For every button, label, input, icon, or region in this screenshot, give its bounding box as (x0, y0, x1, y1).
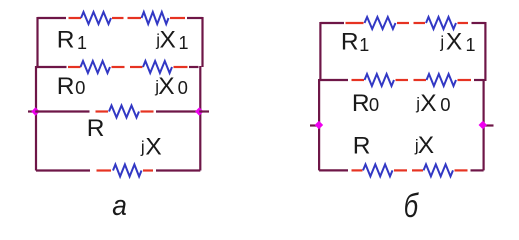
resistor jX0 leads (red dashes) (130, 66, 143, 68)
svg-text:0: 0 (440, 94, 450, 115)
svg-text:X: X (158, 73, 174, 100)
svg-text:R: R (341, 29, 359, 56)
svg-text:X: X (446, 29, 462, 56)
wire: figure a branch3 left stub with terminal (28, 110, 35, 112)
wire: figure a right vertical branch2-branch4 (199, 66, 201, 171)
resistor jX (bottom) (113, 165, 142, 177)
svg-text:R: R (57, 73, 75, 100)
wire: figure b right vertical branch1-branch2 (484, 22, 486, 81)
resistor jX1 (142, 12, 169, 24)
wire: figure a branch2 horizontal right segment (189, 66, 199, 68)
resistor R leads (red dashes) (96, 110, 109, 112)
resistor jX leads (red dashes) (97, 169, 112, 171)
resistor jX (figure b bottom) (424, 164, 454, 176)
wire: figure b left vertical branch2-bottom (318, 79, 320, 170)
svg-text:б: б (404, 188, 419, 225)
svg-text:R: R (353, 133, 371, 160)
svg-text:R: R (352, 90, 370, 117)
resistor R1 (81, 12, 111, 24)
wire: figure b top branch right segment (472, 22, 486, 24)
resistor R1 leads (red dashes, figure b) (346, 22, 364, 24)
svg-text:j: j (140, 138, 145, 157)
wire: figure b top branch left segment (320, 22, 344, 24)
wire: figure b right terminal stub (483, 124, 494, 126)
svg-text:1: 1 (466, 35, 476, 55)
wire: figure a branch2 horizontal left segment (36, 66, 67, 68)
resistor jX1 leads (red dashes, figure b) (414, 22, 426, 24)
svg-text:R: R (57, 27, 75, 54)
resistor R (109, 106, 139, 118)
resistor R leads (red dashes, figure b bottom) (352, 169, 363, 171)
wire: figure a branch3 right stub (199, 110, 209, 112)
wire: figure a top branch right segment (187, 17, 203, 19)
node: figure a branch3 left junction (31, 107, 39, 115)
node: figure b right terminal junction (479, 121, 487, 129)
wire: figure a left vertical branch1-branch2 (36, 17, 38, 67)
svg-text:a: a (112, 189, 127, 221)
svg-text:1: 1 (179, 33, 189, 53)
svg-text:R: R (87, 115, 105, 142)
resistor R0 (81, 61, 111, 73)
resistor R0 (figure b) (365, 74, 395, 86)
resistor jX0 (143, 61, 172, 73)
svg-text:0: 0 (369, 94, 379, 115)
wire: figure b bottom branch right segment (471, 169, 484, 171)
svg-text:X: X (420, 90, 436, 117)
wire: figure b left vertical branch1-branch2 (319, 22, 321, 80)
resistor R (figure b bottom) (363, 164, 393, 176)
wire: figure a right vertical branch1-branch2 (201, 17, 203, 67)
svg-text:j: j (439, 33, 444, 52)
node: figure a branch3 right junction (195, 107, 203, 115)
wire: figure a branch3 maroon left segment (35, 110, 89, 112)
wire: figure a branch4 (bottom) left segment (36, 169, 90, 171)
svg-text:X: X (145, 134, 161, 161)
svg-text:1: 1 (77, 33, 87, 53)
svg-text:X: X (160, 27, 176, 54)
wire: figure a branch3 maroon right segment (156, 110, 199, 112)
wire: figure b left terminal stub (310, 124, 319, 126)
svg-text:X: X (418, 132, 434, 159)
wire: figure a branch4 (bottom) right segment (156, 169, 200, 171)
svg-text:0: 0 (178, 77, 188, 98)
wire: figure b middle branch left segment (319, 79, 348, 81)
resistor jX1 (figure b) (426, 17, 456, 29)
node: figure b left terminal junction (315, 121, 323, 129)
wire: figure b right vertical branch2-bottom (483, 79, 485, 170)
resistor R0 leads (red dashes, figure b) (352, 79, 365, 81)
wire: figure a top branch left segment (38, 17, 67, 19)
wire: figure a left vertical branch2-branch4 (35, 66, 37, 171)
resistor jX0 leads (red dashes, figure b) (414, 79, 427, 81)
resistor jX1 leads (red dashes) (128, 17, 142, 19)
resistor R1 (figure b) (365, 17, 396, 29)
resistor R0 leads (red dashes) (68, 66, 81, 68)
resistor jX leads (red dashes, figure b bottom) (412, 169, 423, 171)
wire: figure b bottom branch left segment (319, 169, 348, 171)
svg-text:0: 0 (75, 77, 85, 98)
svg-text:1: 1 (359, 35, 369, 55)
resistor jX0 (figure b) (427, 74, 457, 86)
wire: figure b middle branch right segment (474, 79, 484, 81)
resistor R1 leads (red dashes) (69, 17, 82, 19)
